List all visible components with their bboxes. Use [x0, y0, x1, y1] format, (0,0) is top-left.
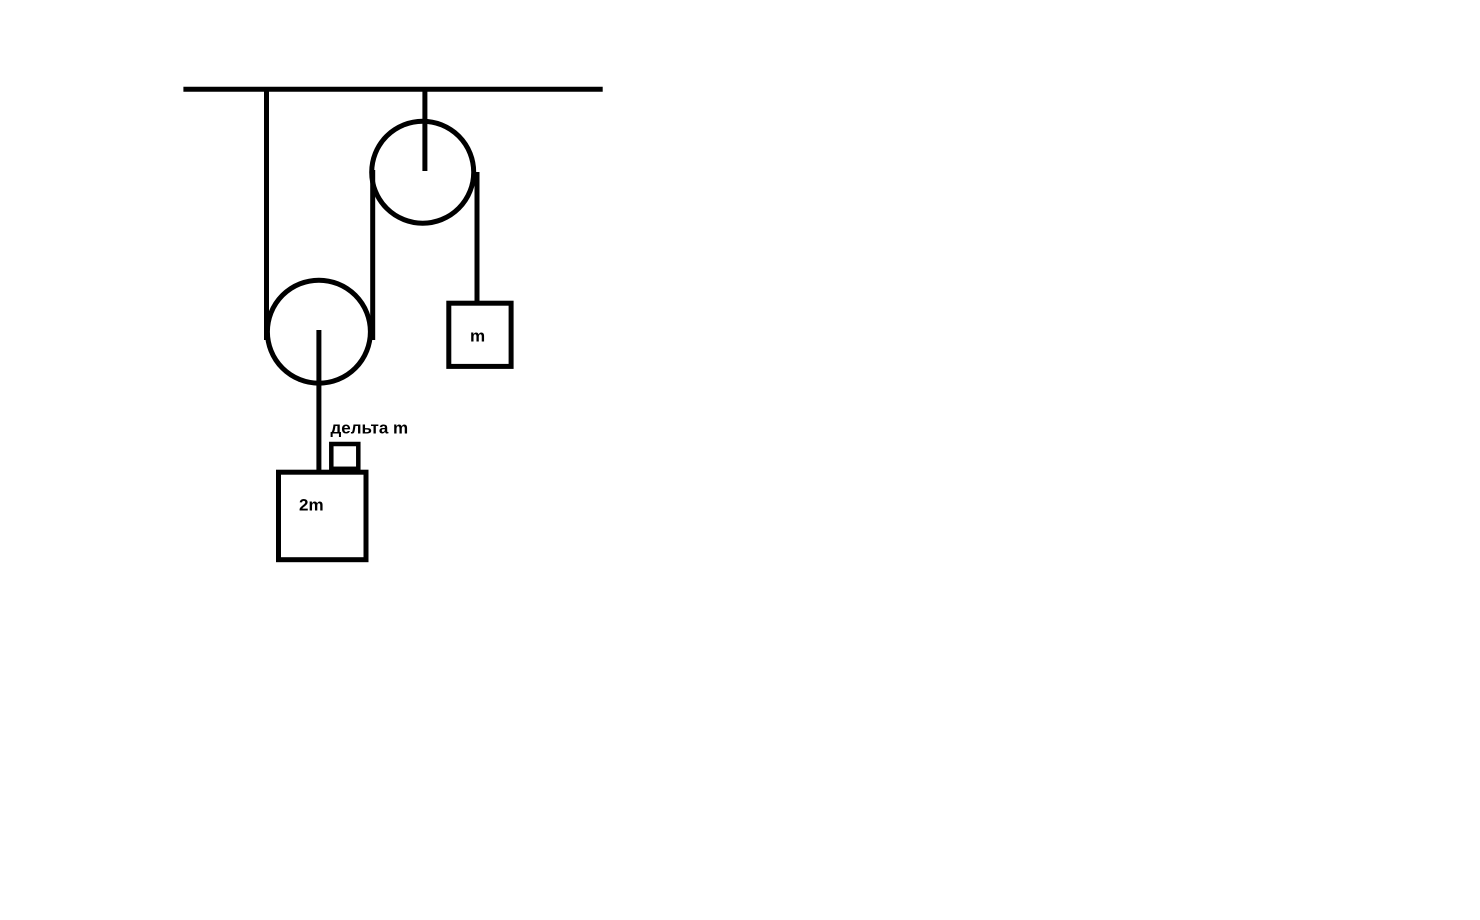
wire rope between pulleys: [370, 170, 375, 340]
mass delta m box: [331, 444, 358, 469]
wire rod from movable pulley to mass 2m: [316, 330, 321, 470]
svg-text:2m: 2m: [299, 496, 324, 515]
svg-text:дельта m: дельта m: [331, 419, 409, 438]
mass m box: [449, 303, 511, 366]
wire axle rod of fixed pulley: [422, 87, 427, 171]
wire right rope to mass m: [475, 172, 480, 304]
pulley movable lower: [267, 280, 370, 383]
mass 2m box: [279, 472, 367, 560]
wire left rope from ceiling to movable pulley: [264, 87, 269, 340]
pulley fixed upper: [372, 121, 474, 223]
ceiling: [183, 87, 602, 92]
svg-text:m: m: [470, 326, 485, 345]
